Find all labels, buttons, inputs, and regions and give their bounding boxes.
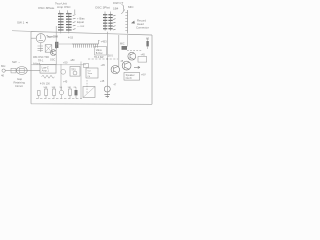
svg-text:Equal: Equal [77,20,84,24]
wire mic line [5,70,40,72]
wire stubs to bottom bus [46,95,76,99]
svg-text:OSC: OSC [50,59,55,62]
small box left [84,64,89,68]
capacitor C1 box [11,68,16,73]
svg-text:TR-4 SW: TR-4 SW [94,57,104,59]
wire vertical bus C [106,32,108,98]
wire bus F (horizontal) [31,64,86,66]
svg-text:1B4: 1B4 [113,6,119,10]
capacitor C2 electrolytic [104,86,110,92]
tube V1 (circle) [36,34,45,43]
transistor Q1 [51,50,57,56]
riser + label "+453" [99,40,100,44]
mechanical link (dash-dot) [88,58,118,60]
resistor R4 [146,41,148,46]
resistor top stubs [46,87,76,91]
contact strip (comb) [72,43,99,45]
block box 4 [138,57,147,63]
svg-text:+50: +50 [63,60,68,64]
outer enclosure box [31,32,152,105]
multi-wire cable (to head connector) [127,10,129,34]
mic jack J1 [2,69,5,72]
brace [121,5,125,14]
svg-text:Mic: Mic [1,64,6,68]
wire vertical bus E [80,62,82,99]
svg-text:50-5: 50-5 [108,55,113,58]
svg-text:+45: +45 [63,80,68,83]
svg-text:Gap: Gap [17,77,23,81]
svg-text:OSC 3Plate: OSC 3Plate [38,6,55,10]
svg-text:a50: a50 [71,59,76,62]
coil marks left of crystal [38,46,44,51]
wire stub above S2 [105,12,111,15]
capacitor C3 [59,90,63,94]
wire (antenna lead left of box corner) [12,30,31,33]
dashed link right [127,50,142,52]
crystal X1 box [45,45,52,53]
junction [56,47,57,48]
svg-text:+45: +45 [141,53,146,56]
svg-text:Tone: Tone [87,73,93,75]
svg-text:MIC: MIC [120,43,125,46]
capacitor C4 small [38,91,41,96]
bottom bus (dashed) [36,98,82,100]
svg-text:— rec: — rec [77,24,85,28]
valve box [95,47,107,56]
svg-text:Connector: Connector [136,25,149,29]
svg-text:SW 1 ◄: SW 1 ◄ [17,21,28,25]
tube V1 internals [39,34,43,40]
wire vertical bus B [60,64,62,90]
S2 wiper ticks [113,15,116,30]
block box 6 [83,87,95,98]
resistor R8 dark [75,90,78,95]
svg-text:Amp OSC: Amp OSC [57,5,71,9]
resistor R6 [53,89,56,95]
S2 coil axes [105,14,110,31]
svg-text:MIC: MIC [128,5,134,9]
resistor R3 dark [122,46,128,50]
amp block box (Low-Z) [40,65,56,74]
svg-text:10K: 10K [52,87,56,89]
dashed vertical link [86,80,88,93]
wire vertical bus A [55,26,57,65]
S1 bottom stubs [61,31,69,33]
svg-text:TR-1: TR-1 [38,60,44,63]
transistor Q5 small [61,69,66,74]
block box 5 (output) [124,73,140,81]
junction [107,58,108,59]
svg-text:+6V: +6V [141,72,146,76]
switch bank S2 (right pair of columns) [103,14,113,29]
pointer arrow right [134,66,140,68]
svg-text:+453: +453 [101,40,108,44]
S1 coil axes [61,13,69,31]
svg-text:40: 40 [1,73,5,77]
svg-text:4-53: 4-53 [68,37,74,40]
tube stem wire [31,38,41,52]
switch bank S1 (record/play contacts, left pair of columns) [58,13,72,30]
svg-text:+ Bias: + Bias [77,17,85,21]
resistor R5 [45,89,48,95]
resistor R1 (dark vertical) [55,42,58,48]
svg-text:Amp 1: Amp 1 [42,70,50,73]
svg-text:50K: 50K [44,87,48,89]
svg-text:1B4 OSC TR2: 1B4 OSC TR2 [33,56,50,59]
svg-text:OSC 3Plat: OSC 3Plat [95,6,110,10]
resistor R7 [69,89,72,95]
transistor Q2 [111,65,119,73]
S1 wiper arrows [73,15,76,30]
resistor R2 zigzag [42,75,55,78]
svg-text:Circuit: Circuit [15,84,23,88]
transistor Q3 [128,52,136,60]
block box 3 [86,68,98,78]
shielded loop [16,67,27,75]
svg-text:B.Osc: B.Osc [96,52,104,55]
svg-text:Vol: Vol [87,70,91,72]
svg-text:+45: +45 [101,64,106,67]
svg-text:4-5V 100: 4-5V 100 [40,82,50,85]
wire stubs above S1 [60,10,75,15]
crystal X1 internals [45,45,52,53]
transistor Q4 [122,61,131,70]
svg-text:SW →: SW → [12,60,20,64]
block box 2 [70,67,80,77]
wire cable into box [127,35,129,47]
svg-text:+45: +45 [100,80,105,83]
pointer arrowhead to connector note [131,21,135,24]
svg-text:Out 8: Out 8 [126,77,133,80]
svg-text:1M: 1M [68,87,71,89]
svg-text:Retaining: Retaining [14,81,26,85]
wire vertical bus D [118,35,120,67]
wire comb feeder [56,43,72,45]
svg-text:63: 63 [146,36,150,40]
cable ticks [125,13,127,31]
